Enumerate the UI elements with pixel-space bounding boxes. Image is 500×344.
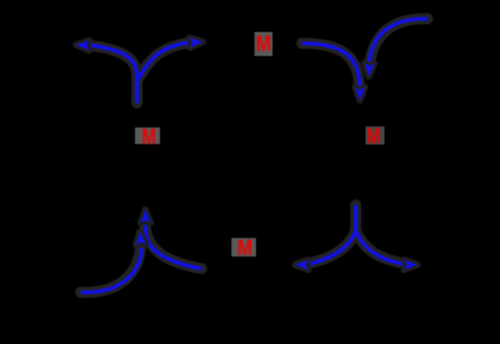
arrowhead down-right group2: [364, 63, 374, 77]
wire left curve group2: [302, 43, 360, 88]
arrowhead left group3: [295, 260, 309, 270]
halo M1: [135, 128, 160, 145]
arrowhead right group3: [404, 260, 418, 270]
halo arrowheads: [76, 38, 418, 270]
wire right branch group3: [356, 231, 407, 265]
wire left curve group4: [81, 248, 141, 292]
svg-text:M: M: [142, 124, 157, 149]
arrowhead up group4-right: [141, 210, 151, 224]
svg-text:M: M: [237, 235, 252, 260]
arrowhead down-left group2: [355, 87, 365, 101]
svg-text:M: M: [256, 31, 271, 56]
wire right curve group2: [369, 19, 428, 64]
svg-text:M: M: [367, 124, 381, 149]
wire left branch group1: [90, 45, 138, 80]
wire right branch group1: [137, 42, 192, 80]
arrowhead right group1: [189, 38, 203, 48]
wire stem group1: [135, 81, 139, 104]
halo M3: [366, 127, 385, 145]
halo M2: [255, 32, 273, 56]
halo M4: [232, 238, 257, 257]
halo group1: [81, 19, 428, 293]
arrowhead left group1: [76, 41, 90, 51]
wire left branch group3: [307, 231, 356, 265]
blue arrows: [81, 19, 428, 293]
wire stem group3: [354, 205, 358, 231]
wire right curve group4: [145, 225, 201, 269]
arrowhead up group4-left: [136, 232, 146, 246]
